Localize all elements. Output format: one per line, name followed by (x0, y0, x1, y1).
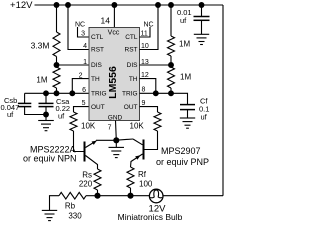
resistor 1M left (53, 67, 60, 88)
svg-text:9: 9 (142, 100, 146, 107)
wire Cf to ground (187, 110, 189, 118)
svg-text:11: 11 (141, 31, 148, 38)
svg-text:14: 14 (101, 15, 111, 25)
node Csa bottom junction (44, 112, 49, 117)
ground Rb (50, 196, 60, 211)
wire pin1 DIS stub (57, 64, 90, 66)
wire pin11 CTL stub (NC) (140, 27, 151, 37)
ground 0.01uf (194, 33, 209, 35)
op-amp U1 LM556 IC body (89, 28, 140, 121)
wire pin13 DIS stub (140, 64, 172, 66)
transistor Q1 emitter (86, 141, 97, 148)
svg-text:3.3M: 3.3M (31, 40, 50, 50)
svg-text:8: 8 (142, 86, 146, 93)
capacitor Cf 0.1uf (180, 104, 195, 106)
capacitor 0.01uf (194, 16, 210, 18)
svg-text:uf: uf (201, 112, 208, 121)
wire 1M to DIS13 (170, 56, 172, 65)
resistor 10K left (70, 112, 77, 131)
svg-text:2: 2 (79, 72, 83, 79)
wire 0.01uf to ground (201, 20, 203, 34)
svg-text:CTL: CTL (91, 34, 104, 41)
svg-text:NC: NC (75, 21, 85, 28)
node Rs/Rb/bulb junction (95, 193, 100, 198)
svg-text:1M: 1M (179, 39, 190, 48)
svg-text:1: 1 (83, 59, 87, 66)
wire right edge (rail down to bulb) (222, 5, 224, 196)
resistor 10K right (154, 112, 161, 131)
transistor Q2 collector (133, 139, 143, 145)
svg-text:100: 100 (139, 179, 153, 188)
svg-text:220: 220 (79, 180, 93, 189)
svg-text:+12V: +12V (10, 0, 33, 11)
wire RST10 riser (140, 5, 159, 50)
wire Q2 collector to GND node (116, 139, 133, 140)
node rail/RST4 (66, 3, 71, 8)
svg-text:10K: 10K (81, 121, 96, 130)
svg-text:1M: 1M (36, 76, 47, 85)
node Csa top junction (44, 91, 49, 96)
transistor Q2 MPS2907 base bar (143, 140, 145, 160)
svg-text:3: 3 (81, 31, 85, 38)
svg-text:NC: NC (143, 21, 153, 28)
wire Rf to bulb line (130, 188, 132, 196)
wire 10K to Q1 base (74, 131, 84, 152)
node Rf/bulb junction (128, 193, 133, 198)
transistor Q1 MPS2222A base bar (84, 142, 86, 162)
wire pin7 GND (115, 121, 118, 141)
node rail/0.01uf (199, 3, 204, 8)
svg-text:uf: uf (7, 110, 14, 119)
svg-text:Miniatronics Bulb: Miniatronics Bulb (118, 212, 183, 222)
node rail/RST10 (156, 3, 161, 8)
wire 3.3M to DIS1 (56, 57, 58, 66)
wire Csb bottom (25, 107, 46, 115)
svg-text:DIS: DIS (91, 62, 103, 69)
svg-text:TH: TH (91, 76, 100, 83)
wire pin2 TH stub (72, 79, 89, 94)
svg-text:10: 10 (141, 43, 149, 50)
ground Csa/Csb (38, 120, 54, 122)
resistor 1M right upper (168, 36, 175, 56)
svg-text:10K: 10K (130, 121, 145, 130)
svg-text:13: 13 (141, 59, 149, 66)
wire pin14 Vcc (113, 5, 115, 28)
svg-text:RST: RST (91, 47, 104, 54)
wire 3.3M top feed (56, 5, 58, 32)
svg-text:4: 4 (83, 43, 87, 50)
node rail/1M (169, 3, 174, 8)
ground center (109, 146, 125, 148)
ground Cf (180, 117, 195, 119)
wire 1M upper feed (170, 5, 172, 36)
svg-text:Rs: Rs (82, 170, 92, 179)
wire GND stub (115, 140, 117, 147)
node GND junction (114, 138, 119, 143)
node junction rail/3.3M (54, 3, 59, 8)
svg-text:OUT: OUT (91, 104, 105, 111)
wire pin12 TH stub (140, 79, 156, 94)
node DIS1 junction (54, 63, 59, 68)
svg-text:uf: uf (180, 16, 187, 25)
node 1M/TRIG8 junction (169, 91, 174, 96)
node rail/Vcc (112, 3, 117, 8)
wire Q1 emitter to GND node (96, 139, 116, 141)
svg-text:or equiv NPN: or equiv NPN (23, 154, 77, 164)
svg-text:or equiv PNP: or equiv PNP (156, 157, 209, 167)
wire pin9 OUT stub (140, 107, 158, 112)
svg-text:12: 12 (141, 72, 149, 79)
svg-text:Vcc: Vcc (108, 29, 120, 36)
resistor 1M right lower (168, 67, 175, 88)
svg-text:Rf: Rf (138, 170, 147, 179)
svg-text:RST: RST (125, 47, 138, 54)
wire Rb to junction (86, 195, 98, 197)
svg-text:CTL: CTL (125, 34, 138, 41)
svg-text:DIS: DIS (127, 62, 139, 69)
resistor Rb 330 (59, 192, 86, 199)
wire pin6 TRIG line (25, 92, 89, 94)
wire pin5 OUT stub (74, 107, 90, 112)
wire 1M left to TRIG6 (56, 88, 58, 93)
svg-text:TH: TH (129, 76, 138, 83)
wire Csa to ground (45, 107, 47, 121)
node TH2/TRIG6 junction (70, 91, 75, 96)
svg-text:Rb: Rb (65, 201, 76, 210)
svg-text:OUT: OUT (124, 104, 138, 111)
svg-text:GND: GND (108, 114, 123, 121)
svg-text:7: 7 (108, 124, 112, 131)
wire 0.01uf feed (201, 5, 203, 16)
wire bulb line left (98, 195, 150, 197)
wire pin3 CTL stub (NC) (78, 27, 90, 37)
svg-text:MPS2907: MPS2907 (161, 146, 201, 156)
wire Rs to bulb line (97, 190, 99, 196)
svg-text:1M: 1M (180, 73, 191, 82)
resistor 3.3M (53, 32, 60, 57)
wire RST4 riser (68, 5, 89, 50)
wire +12V top rail (35, 4, 224, 6)
capacitor Csb 0.047uf (24, 93, 26, 103)
wire 10K to Q2 base (145, 131, 158, 150)
svg-text:6: 6 (82, 87, 86, 94)
svg-text:5: 5 (82, 100, 86, 107)
wire pin8 TRIG line (140, 93, 188, 104)
node TRIG6 junction (54, 91, 59, 96)
transistor Q2 emitter (131, 154, 143, 167)
transistor Q1 collector (86, 156, 98, 170)
node DIS13 junction (169, 63, 174, 68)
capacitor Csa 0.22uf (45, 93, 47, 103)
lamp 12V bulb (149, 189, 163, 203)
svg-text:uf: uf (58, 112, 65, 121)
node TH12/TRIG8 junction (153, 91, 158, 96)
svg-text:TRIG: TRIG (91, 91, 107, 98)
wire 1M lower to TRIG8 (170, 88, 172, 93)
svg-text:330: 330 (68, 211, 82, 220)
resistor Rs 220 (94, 169, 101, 190)
wire bulb line right (163, 195, 223, 197)
svg-text:LM556: LM556 (107, 66, 119, 99)
resistor Rf 100 (127, 167, 134, 188)
svg-text:TRIG: TRIG (122, 91, 138, 98)
